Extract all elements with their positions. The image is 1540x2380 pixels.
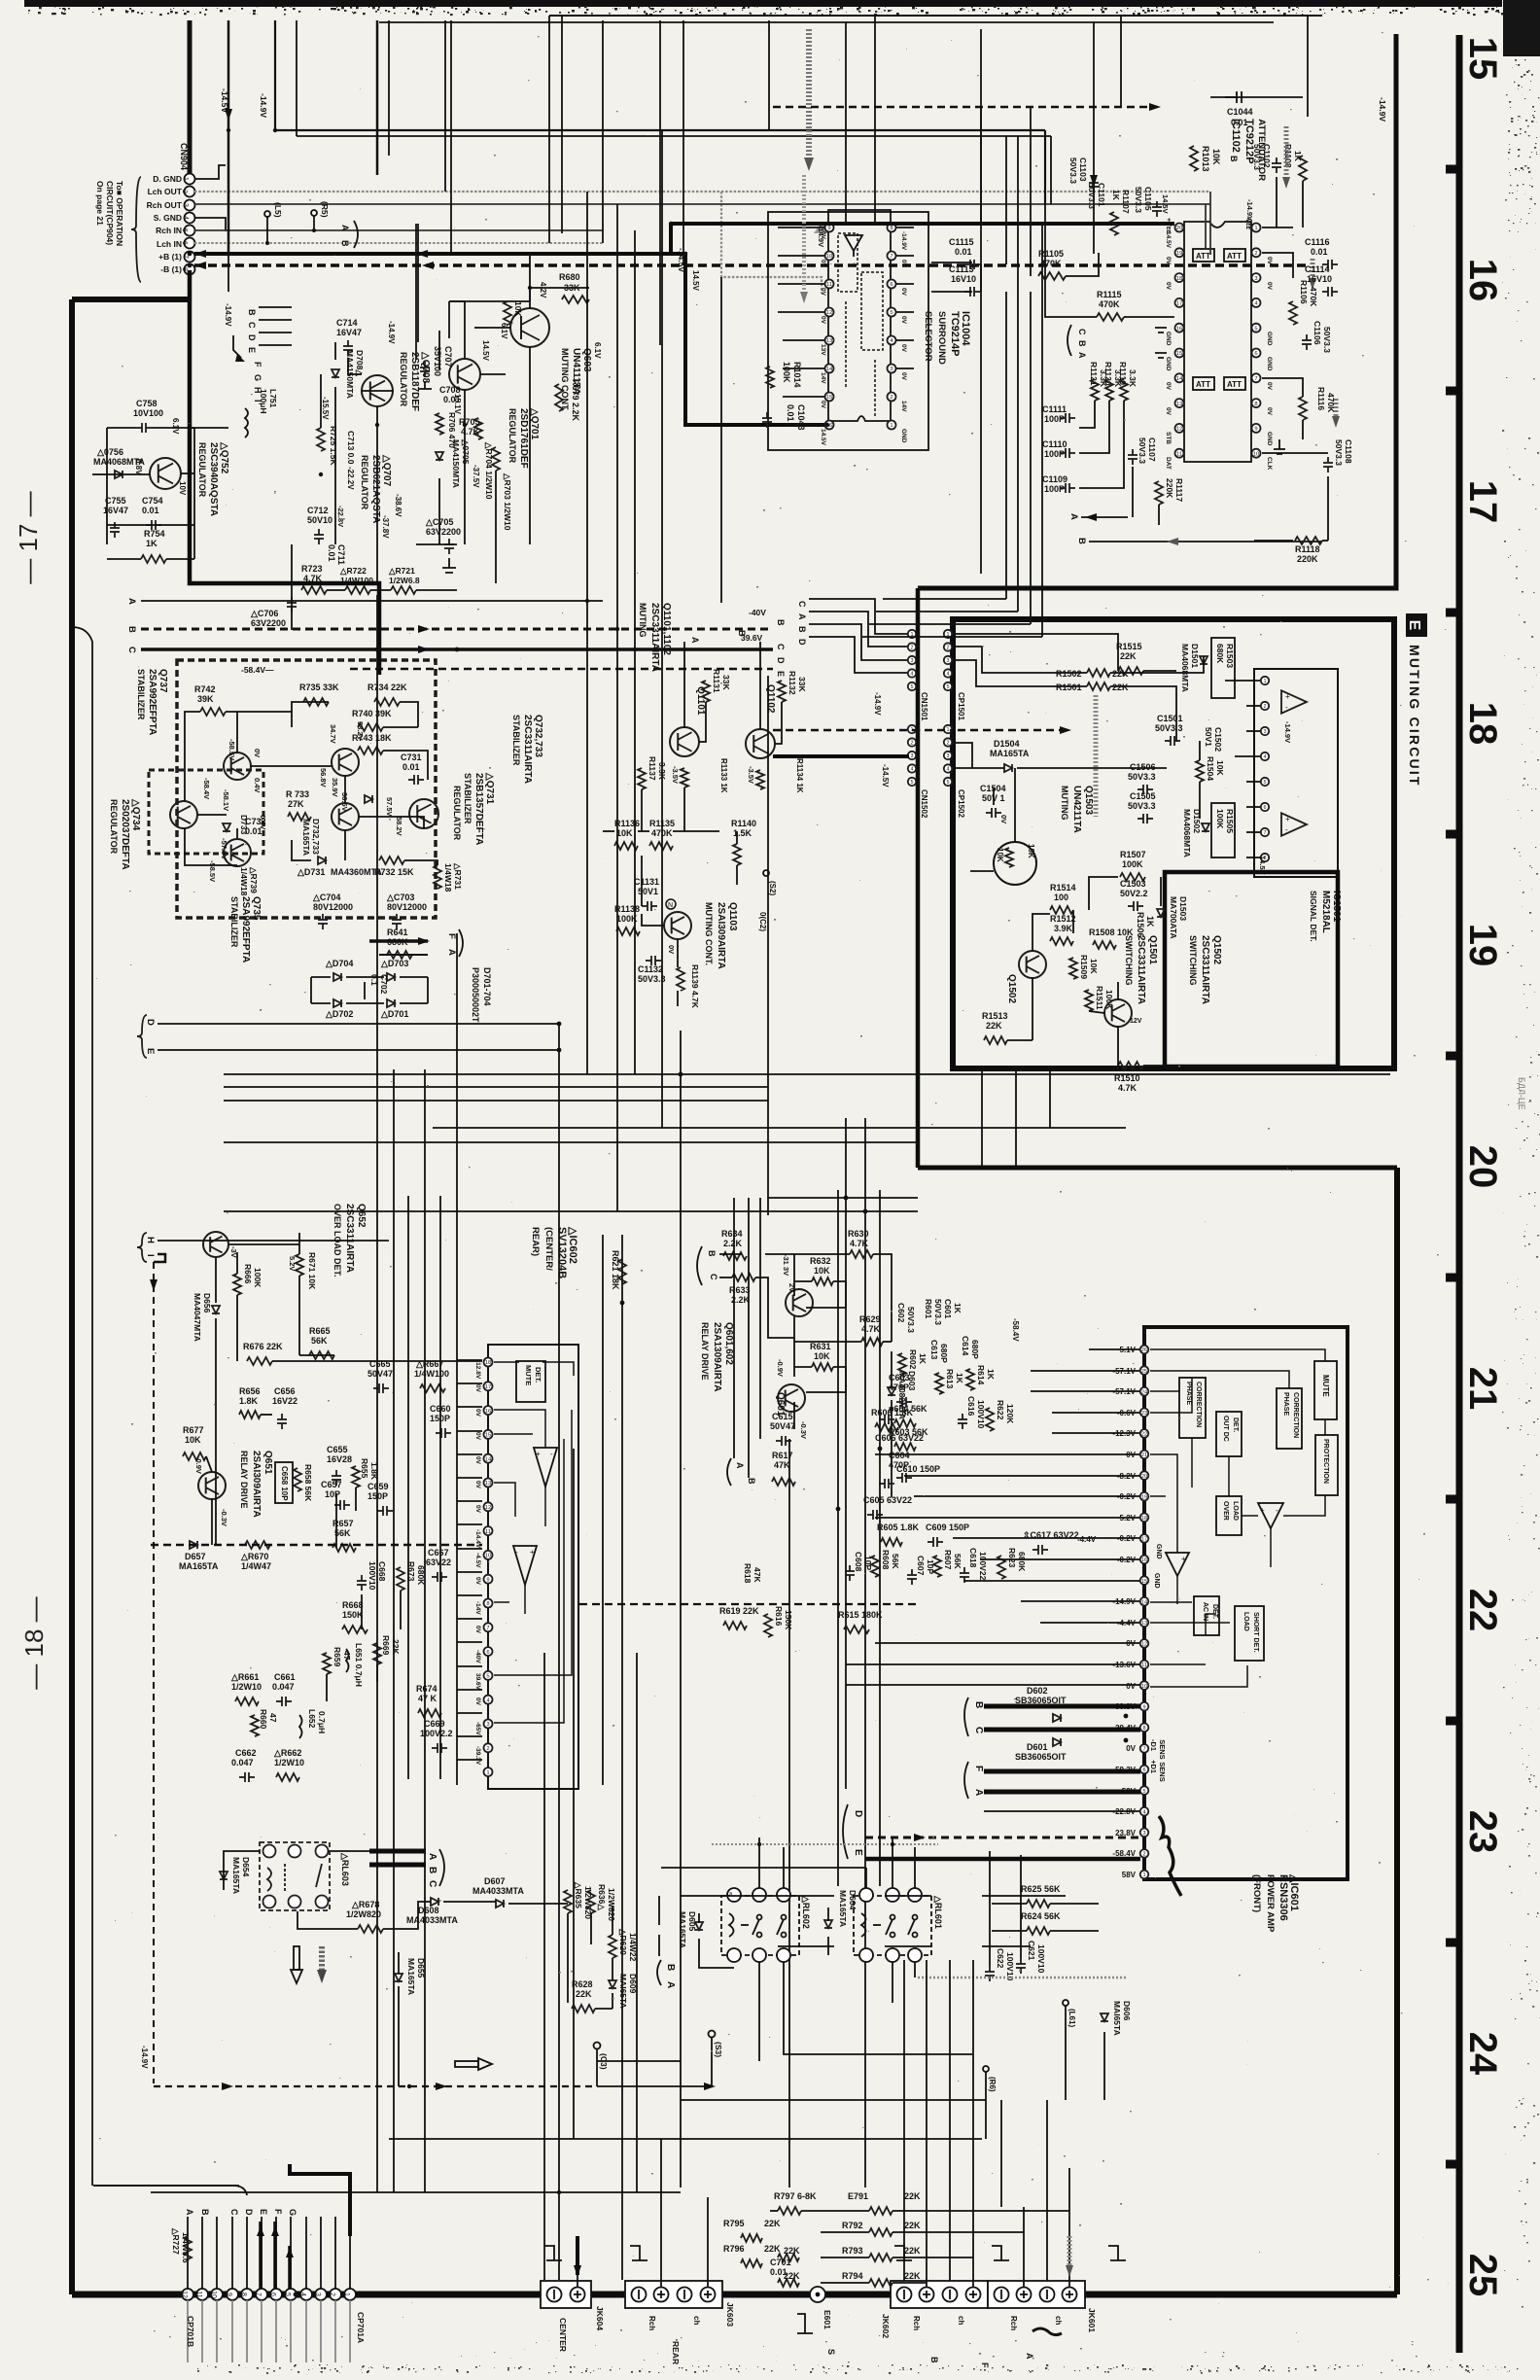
CN1502 pin 4 bbox=[908, 764, 916, 772]
svg-text:R734 22K: R734 22K bbox=[367, 682, 407, 692]
svg-text:C657: C657 bbox=[321, 1480, 342, 1489]
IC601 pin 25 bbox=[1140, 1366, 1149, 1375]
svg-text:12: 12 bbox=[1176, 427, 1183, 433]
svg-text:CP701B: CP701B bbox=[186, 2316, 195, 2347]
IC1004 pin 2 bbox=[888, 393, 896, 402]
svg-text:150K: 150K bbox=[784, 1610, 793, 1630]
svg-text:4: 4 bbox=[1142, 1809, 1145, 1815]
svg-text:6: 6 bbox=[1263, 805, 1266, 811]
svg-text:0.047: 0.047 bbox=[231, 1758, 254, 1767]
label Δ0705 MA4150MTA bbox=[451, 438, 471, 488]
resistor R735 body bbox=[303, 698, 329, 706]
svg-text:-58.5V: -58.5V bbox=[208, 860, 217, 882]
svg-text:0(C2): 0(C2) bbox=[758, 912, 767, 931]
svg-text:L651 0.7μH: L651 0.7μH bbox=[354, 1643, 364, 1687]
resistor R659 47 bbox=[332, 1647, 352, 1667]
resistor R1115 470K bbox=[1097, 290, 1122, 309]
IC1102 pin 2 bbox=[1252, 248, 1261, 257]
svg-text:R742: R742 bbox=[194, 684, 216, 694]
capacitor C1132 body bbox=[646, 956, 661, 965]
svg-text:10K: 10K bbox=[513, 301, 523, 317]
svg-text:C732: C732 bbox=[245, 817, 266, 826]
resistor R1107 body bbox=[1110, 212, 1118, 235]
svg-text:SWITCHING: SWITCHING bbox=[1188, 935, 1198, 986]
IC601 pin 18 bbox=[1140, 1514, 1149, 1522]
label -14.9V feeder2 bbox=[224, 303, 245, 362]
svg-text:F: F bbox=[273, 2209, 283, 2215]
svg-text:БДЛ-ЦЕ: БДЛ-ЦЕ bbox=[1517, 1077, 1526, 1110]
resistor R655 1.8K bbox=[360, 1458, 379, 1481]
IC1102 pin 19 bbox=[1175, 248, 1184, 257]
svg-text:D608: D608 bbox=[418, 1906, 439, 1915]
svg-text:-40V: -40V bbox=[749, 608, 766, 617]
resistor R616 body bbox=[764, 1614, 772, 1637]
IC601 pin 6 bbox=[1140, 1766, 1149, 1774]
svg-text:△0756: △0756 bbox=[96, 447, 123, 457]
svg-text:△Q708: △Q708 bbox=[420, 351, 431, 384]
svg-text:R793: R793 bbox=[842, 2246, 863, 2256]
resistor R666 100K bbox=[243, 1264, 262, 1288]
svg-text:56K: 56K bbox=[953, 1554, 962, 1569]
IC602 pin 10 bbox=[484, 1551, 493, 1559]
resistor R1503 680K boxed bbox=[1211, 638, 1235, 698]
svg-text:470K: 470K bbox=[1326, 393, 1336, 413]
bus wire A bbox=[141, 600, 603, 602]
stub (S2) bbox=[763, 870, 777, 895]
svg-text:2SC3311AIRTA: 2SC3311AIRTA bbox=[649, 603, 660, 672]
bus wire between sections bbox=[916, 588, 921, 1168]
IC1102 pin 5 bbox=[1252, 324, 1261, 332]
op-amp IC1501b bbox=[1281, 813, 1307, 835]
resistor R1506 1K bbox=[1136, 912, 1155, 938]
svg-text:A: A bbox=[340, 225, 350, 231]
svg-text:C1501: C1501 bbox=[1157, 714, 1183, 723]
svg-text:E: E bbox=[853, 1849, 863, 1856]
svg-text:GND: GND bbox=[1165, 332, 1172, 346]
resistor R1505 100K boxed bbox=[1211, 803, 1235, 857]
svg-text:R792: R792 bbox=[842, 2221, 863, 2230]
svg-text:A: A bbox=[665, 1981, 676, 1988]
svg-text:8: 8 bbox=[1142, 1726, 1145, 1732]
resistor R636 1/2W820 bbox=[597, 1884, 616, 1921]
wire -14.5V feeder bbox=[220, 20, 232, 254]
svg-text:-37.5V: -37.5V bbox=[472, 465, 480, 488]
resistor R1121 body bbox=[1091, 379, 1099, 401]
svg-text:MA700ATA: MA700ATA bbox=[1169, 896, 1178, 939]
svg-text:21: 21 bbox=[1461, 1367, 1504, 1411]
svg-text:2SC3940AQSTA: 2SC3940AQSTA bbox=[208, 442, 219, 516]
outline arrow bottom horizontal bbox=[455, 2058, 492, 2070]
label To A OPERATION CIRCUIT(CP904) bbox=[95, 181, 124, 246]
svg-text:R630: R630 bbox=[848, 1229, 869, 1239]
label IC1004 TC9214P SURROUND SELECTOR bbox=[923, 311, 971, 365]
stabilizer block outline bbox=[177, 660, 436, 918]
svg-text:P300050002T: P300050002T bbox=[471, 967, 480, 1023]
svg-text:1: 1 bbox=[343, 2292, 350, 2296]
svg-text:10K: 10K bbox=[1089, 959, 1099, 974]
svg-text:C616: C616 bbox=[966, 1396, 976, 1417]
svg-text:22K: 22K bbox=[1112, 669, 1129, 679]
svg-text:-0.3V: -0.3V bbox=[799, 1421, 808, 1439]
svg-text:Q1502: Q1502 bbox=[1006, 974, 1017, 1003]
svg-text:16V10: 16V10 bbox=[1307, 274, 1332, 284]
svg-text:C1113: C1113 bbox=[949, 264, 974, 274]
terminal E601 bbox=[797, 2287, 836, 2355]
svg-text:(L61): (L61) bbox=[1067, 2009, 1076, 2027]
transistor Q1101 bbox=[670, 727, 699, 756]
label ΔIC602 SV13204B (CENTER/REAR) bbox=[530, 1226, 578, 1278]
svg-text:A: A bbox=[797, 613, 807, 620]
capacitor C731 body bbox=[408, 775, 424, 785]
svg-text:+: + bbox=[1181, 1555, 1186, 1563]
wires B-E stubs bbox=[259, 307, 292, 345]
svg-text:100: 100 bbox=[1054, 892, 1068, 902]
svg-text:4: 4 bbox=[910, 672, 913, 678]
svg-text:B: B bbox=[340, 240, 350, 247]
op-amp IC601 gnd bbox=[1166, 1553, 1189, 1576]
svg-text:D1501: D1501 bbox=[1190, 644, 1200, 668]
svg-text:D732,733: D732,733 bbox=[311, 819, 321, 855]
svg-text:R723: R723 bbox=[301, 564, 323, 574]
svg-text:Rch: Rch bbox=[912, 2316, 921, 2330]
resistor R1509 10K bbox=[1079, 955, 1099, 979]
svg-text:-14V: -14V bbox=[474, 1601, 481, 1615]
IC1501 pin 1 bbox=[1261, 677, 1269, 684]
svg-text:LOAD: LOAD bbox=[1232, 1501, 1239, 1521]
svg-text:-0.9V: -0.9V bbox=[194, 1456, 203, 1474]
svg-text:D604: D604 bbox=[848, 1890, 857, 1910]
label Q652 2SC3311AIRTA OVER LOAD DET. bbox=[332, 1204, 367, 1277]
svg-text:MA165TA: MA165TA bbox=[990, 749, 1030, 758]
svg-text:13V: 13V bbox=[820, 344, 826, 356]
resistor R1014 100K bbox=[782, 362, 802, 388]
IC1004 inner dashed circuit bbox=[838, 233, 883, 418]
resistor R1119 3.3K bbox=[1118, 362, 1137, 388]
svg-text:R655: R655 bbox=[360, 1458, 369, 1479]
transistor Q737 bbox=[224, 752, 251, 780]
IC1501 pin 2 bbox=[1261, 702, 1269, 710]
svg-text:△R678: △R678 bbox=[351, 1900, 379, 1909]
diode D654 MA165TA bbox=[231, 1857, 251, 1894]
resistor R1120 3.3K bbox=[1103, 362, 1123, 388]
svg-text:2: 2 bbox=[181, 190, 188, 193]
wire C758 bbox=[107, 427, 194, 429]
capacitor C660 150P bbox=[430, 1404, 451, 1423]
svg-text:2SA992EFPTA: 2SA992EFPTA bbox=[240, 896, 251, 962]
svg-text:C1503: C1503 bbox=[1120, 879, 1146, 889]
svg-text:18: 18 bbox=[485, 1360, 492, 1366]
svg-text:-58.1V: -58.1V bbox=[222, 789, 230, 811]
resistor R668 body bbox=[342, 1626, 367, 1633]
diode D732 body bbox=[365, 795, 372, 803]
svg-text:3.9K: 3.9K bbox=[1054, 924, 1073, 933]
svg-text:3: 3 bbox=[946, 753, 949, 759]
wire Q603 base bbox=[486, 327, 510, 329]
svg-text:R1014: R1014 bbox=[792, 362, 802, 388]
connector CN904 bbox=[147, 174, 195, 275]
resistor R795 22K bbox=[723, 2219, 781, 2228]
ruler tick bbox=[1446, 1495, 1459, 1504]
label ΔQ752 2SC3940AQSTA REGULATOR bbox=[197, 441, 229, 516]
resistor R631 body bbox=[812, 1363, 833, 1371]
resistor row left a body bbox=[778, 2254, 799, 2261]
resistor R793 22K bbox=[842, 2246, 921, 2256]
IC1004 pin 7 bbox=[888, 252, 896, 261]
resistor R1115 body bbox=[1097, 313, 1124, 321]
svg-text:MAI65TA: MAI65TA bbox=[1112, 2001, 1122, 2036]
svg-text:+D1: +D1 bbox=[1149, 1760, 1158, 1773]
svg-text:63V2200: 63V2200 bbox=[426, 527, 461, 537]
CP1501 pin 2 bbox=[944, 643, 952, 650]
resistor R1140 1.5K bbox=[731, 819, 756, 838]
resistor R1507 100K bbox=[1120, 850, 1146, 869]
label Q1101,1102 2SC3311AIRTA MUTING bbox=[638, 603, 672, 672]
svg-text:-65V: -65V bbox=[474, 1722, 481, 1735]
diode D607 body bbox=[496, 1900, 504, 1907]
svg-text:R1118: R1118 bbox=[1295, 544, 1320, 554]
svg-text:SWITCHING: SWITCHING bbox=[1124, 935, 1134, 986]
power amp section right border wire bbox=[1394, 1168, 1400, 2294]
svg-text:C604: C604 bbox=[889, 1451, 910, 1460]
inductor L751 100uH bbox=[245, 389, 278, 437]
rect PROTECTION bbox=[1315, 1435, 1338, 1495]
wires below muting box bbox=[982, 1068, 1050, 1168]
svg-text:Q735: Q735 bbox=[251, 896, 262, 921]
svg-text:C1107: C1107 bbox=[1147, 437, 1157, 462]
svg-text:9: 9 bbox=[1142, 1704, 1145, 1710]
svg-text:4.7K: 4.7K bbox=[850, 1239, 869, 1248]
svg-text:-14.9V: -14.9V bbox=[259, 93, 268, 118]
dashed bus IC602 bbox=[151, 1544, 482, 1547]
svg-text:R605 1.8K: R605 1.8K bbox=[877, 1522, 920, 1532]
svg-text:C: C bbox=[427, 1880, 437, 1887]
svg-text:47: 47 bbox=[342, 1651, 352, 1661]
resistor R1132 33K bbox=[787, 671, 807, 695]
ruler tick bbox=[1446, 609, 1459, 617]
svg-text:TC9214P: TC9214P bbox=[949, 311, 961, 356]
resistor R666 body bbox=[233, 1274, 241, 1295]
svg-text:C1502: C1502 bbox=[1213, 727, 1223, 752]
svg-text:50V2.2: 50V2.2 bbox=[1120, 889, 1148, 898]
svg-text:SB36065OIT: SB36065OIT bbox=[1015, 1752, 1067, 1762]
svg-text:50V10: 50V10 bbox=[307, 515, 332, 525]
IC601 pin 24 bbox=[1140, 1387, 1149, 1396]
capacitor C615 50V47 bbox=[770, 1412, 795, 1431]
svg-text:4: 4 bbox=[299, 2292, 306, 2296]
svg-text:R601: R601 bbox=[924, 1299, 933, 1319]
resistor R1510 4.7K bbox=[1114, 1073, 1140, 1093]
resistor R1137 body bbox=[638, 768, 646, 789]
capacitor C659 150P bbox=[367, 1482, 389, 1501]
svg-text:-58.4V: -58.4V bbox=[202, 778, 211, 799]
diode D1501 MA4068MTA bbox=[1180, 644, 1200, 692]
svg-text:C658 10P: C658 10P bbox=[280, 1466, 289, 1501]
svg-text:C754: C754 bbox=[142, 496, 163, 506]
svg-text:14V: 14V bbox=[820, 372, 826, 384]
resistor R659 body bbox=[323, 1653, 331, 1674]
svg-text:25: 25 bbox=[1461, 2254, 1504, 2297]
svg-text:47K: 47K bbox=[774, 1460, 790, 1470]
svg-text:220K: 220K bbox=[1165, 478, 1174, 499]
ground stub pin16 bbox=[1155, 328, 1167, 332]
vertical bus wires upper mid bbox=[377, 20, 981, 574]
svg-text:19: 19 bbox=[1176, 251, 1183, 257]
IC601 pin 8 bbox=[1140, 1724, 1149, 1732]
resistor R722 body bbox=[345, 586, 370, 594]
bus wire C thick bbox=[141, 647, 773, 651]
svg-text:REGULATOR: REGULATOR bbox=[452, 786, 462, 841]
resistor R628 22K bbox=[572, 1979, 593, 1999]
svg-text:B: B bbox=[973, 1701, 984, 1708]
svg-text:MUTING: MUTING bbox=[1060, 786, 1069, 821]
svg-text:E: E bbox=[145, 1048, 156, 1054]
resistor R1138 100K bbox=[614, 904, 640, 924]
svg-text:1K: 1K bbox=[986, 1369, 996, 1381]
svg-text:58.2V: 58.2V bbox=[395, 817, 403, 836]
svg-text:57.5V: 57.5V bbox=[385, 797, 394, 817]
svg-text:0V: 0V bbox=[1165, 407, 1172, 416]
capacitor C755 body bbox=[110, 522, 120, 538]
resistor ΔR727 1/4W5.6 bbox=[171, 2227, 191, 2263]
bus -B(1) dashed wire bbox=[194, 263, 1308, 267]
svg-text:50V47: 50V47 bbox=[367, 1369, 393, 1379]
svg-text:C758: C758 bbox=[136, 399, 157, 408]
IC IC601 box bbox=[1144, 1327, 1347, 1879]
label Q651 2SAI309AIRTA RELAY DRIVE bbox=[239, 1451, 273, 1518]
capacitor C1114 16V10 bbox=[1305, 264, 1332, 284]
svg-text:33K: 33K bbox=[797, 677, 807, 692]
IC IC1004 body bbox=[828, 210, 891, 421]
resistor R796 22K bbox=[723, 2244, 781, 2254]
IC1501 pin 4 bbox=[1261, 752, 1269, 760]
junction dots 2 bbox=[227, 128, 983, 2194]
svg-text:R1512: R1512 bbox=[1050, 914, 1076, 924]
brace D E outputs bbox=[843, 1804, 863, 1859]
label IC1102 TC9212P ATTENUATOR bbox=[1230, 119, 1267, 181]
svg-text:2SB1357DEFTA: 2SB1357DEFTA bbox=[473, 773, 484, 845]
svg-text:18: 18 bbox=[1176, 276, 1183, 282]
svg-text:C1043: C1043 bbox=[796, 404, 806, 431]
resistor R633 body bbox=[732, 1274, 755, 1281]
svg-text:Lch IN: Lch IN bbox=[157, 239, 182, 249]
svg-text:0V: 0V bbox=[474, 1456, 481, 1465]
svg-text:6: 6 bbox=[486, 1650, 489, 1656]
capacitor C602 50V3.3 bbox=[896, 1303, 916, 1333]
svg-text:C755: C755 bbox=[105, 496, 126, 506]
svg-text:12: 12 bbox=[1141, 1642, 1147, 1648]
svg-text:50V3.3: 50V3.3 bbox=[933, 1299, 943, 1325]
svg-text:R1107: R1107 bbox=[1121, 190, 1131, 214]
relay RL601 bbox=[854, 1888, 931, 1962]
svg-text:-4.4V: -4.4V bbox=[1077, 1535, 1097, 1544]
IC1004 pin 11 bbox=[825, 280, 834, 289]
capacitor C668 100V10 bbox=[367, 1561, 387, 1591]
wire E net bbox=[157, 1049, 559, 1051]
svg-text:14.5V: 14.5V bbox=[1258, 856, 1267, 875]
svg-text:2: 2 bbox=[486, 1746, 489, 1752]
svg-text:100P: 100P bbox=[1044, 414, 1065, 424]
svg-text:10K: 10K bbox=[1211, 149, 1221, 165]
svg-text:33K: 33K bbox=[721, 675, 731, 690]
svg-text:1K: 1K bbox=[146, 539, 157, 548]
dashed bus bottom bbox=[154, 2082, 716, 2090]
svg-text:C1103: C1103 bbox=[1078, 157, 1088, 182]
svg-text:△R635: △R635 bbox=[574, 1881, 583, 1908]
svg-text:ATT: ATT bbox=[1227, 380, 1242, 389]
svg-text:0V: 0V bbox=[820, 231, 826, 240]
circleN mark bbox=[666, 899, 676, 909]
svg-text:C602: C602 bbox=[896, 1303, 906, 1323]
svg-text:-14.9V: -14.9V bbox=[873, 692, 882, 716]
power amp section top border wire bbox=[918, 1166, 1397, 1171]
thick corner wire below CN904 bbox=[190, 270, 379, 675]
svg-text:-58.5V: -58.5V bbox=[227, 739, 236, 760]
capacitor C1103 50V3.3 bbox=[1068, 157, 1088, 184]
svg-text:6: 6 bbox=[890, 282, 892, 288]
svg-text:B: B bbox=[1229, 156, 1239, 162]
svg-text:1/2W820: 1/2W820 bbox=[346, 1909, 381, 1919]
svg-text:(CENTER/: (CENTER/ bbox=[543, 1227, 554, 1271]
resistor R1131 33K bbox=[712, 669, 731, 693]
resistor R1511 body bbox=[1085, 990, 1093, 1011]
svg-text:22K: 22K bbox=[764, 2244, 781, 2254]
hatched arrow jk601 bbox=[1066, 2236, 1073, 2277]
svg-text:Q737: Q737 bbox=[157, 669, 168, 693]
resistor R705 4.7K bbox=[459, 417, 480, 437]
capacitor C655 body bbox=[332, 1470, 341, 1486]
resistor R604 body bbox=[894, 1419, 916, 1427]
speaker output wire B bbox=[984, 1704, 1140, 1709]
svg-text:12: 12 bbox=[485, 1505, 492, 1511]
resistor R673 680K bbox=[406, 1561, 426, 1586]
svg-text:IC1501: IC1501 bbox=[1331, 891, 1342, 923]
svg-text:C614: C614 bbox=[961, 1336, 970, 1356]
resistor R1135 470K bbox=[649, 819, 675, 838]
svg-text:C: C bbox=[126, 647, 137, 653]
bus +B(1) wire bbox=[194, 224, 827, 425]
diode D1504 MA165TA bbox=[990, 739, 1030, 758]
capacitor C1109 100P bbox=[1042, 474, 1067, 494]
svg-text:C618: C618 bbox=[968, 1548, 978, 1568]
svg-text:D603: D603 bbox=[907, 1371, 917, 1391]
capacitor C665 body bbox=[373, 1383, 389, 1393]
svg-text:R725 1.5K: R725 1.5K bbox=[329, 426, 338, 466]
capacitor C1111 100P bbox=[1042, 404, 1067, 424]
IC602 pin 7 bbox=[484, 1623, 493, 1631]
wires diode bridge bbox=[311, 977, 428, 1003]
resistor R1515 22K bbox=[1116, 642, 1142, 661]
capacitor C1132 50V3.3 bbox=[638, 964, 666, 984]
svg-text:C605 63V22: C605 63V22 bbox=[863, 1495, 912, 1505]
svg-text:22K: 22K bbox=[1120, 651, 1137, 661]
svg-text:C668: C668 bbox=[377, 1561, 387, 1582]
svg-text:R656: R656 bbox=[239, 1386, 261, 1396]
capacitor C1106 50V3.3 bbox=[1312, 321, 1332, 353]
svg-text:23: 23 bbox=[1141, 1411, 1147, 1417]
resistor R614 body bbox=[966, 1369, 974, 1390]
svg-text:680P: 680P bbox=[939, 1344, 949, 1363]
resistor R727 body bbox=[184, 2236, 192, 2259]
label Q735 2SA992EFPTA STABILIZER bbox=[229, 896, 262, 962]
svg-text:C609 150P: C609 150P bbox=[926, 1522, 969, 1532]
svg-text:MA165TA: MA165TA bbox=[406, 1958, 416, 1995]
IC1004 pin 4 bbox=[888, 336, 896, 345]
svg-text:10V: 10V bbox=[178, 481, 187, 496]
resistor R632 10K bbox=[810, 1256, 831, 1276]
capacitor C1113 16V10 bbox=[949, 264, 976, 284]
svg-text:+B (1): +B (1) bbox=[158, 252, 182, 262]
svg-text:0V: 0V bbox=[1266, 407, 1273, 416]
